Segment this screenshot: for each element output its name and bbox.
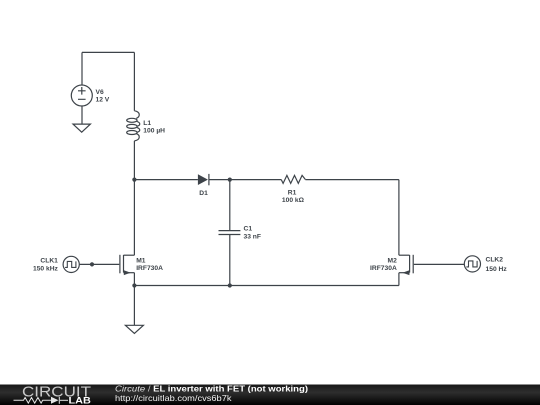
- svg-text:100 µH: 100 µH: [143, 128, 165, 135]
- svg-text:LAB: LAB: [69, 396, 92, 405]
- svg-text:http://circuitlab.com/cvs6b7k: http://circuitlab.com/cvs6b7k: [115, 393, 232, 403]
- svg-text:12 V: 12 V: [96, 97, 110, 104]
- svg-text:150 Hz: 150 Hz: [486, 266, 508, 273]
- svg-text:R1: R1: [288, 190, 297, 197]
- svg-text:100 kΩ: 100 kΩ: [282, 197, 305, 204]
- svg-text:Circute / EL inverter with FET: Circute / EL inverter with FET (not work…: [115, 383, 308, 393]
- svg-text:C1: C1: [244, 225, 253, 232]
- svg-text:CLK1: CLK1: [40, 258, 58, 265]
- svg-text:33 nF: 33 nF: [244, 233, 261, 240]
- svg-text:V6: V6: [96, 89, 104, 96]
- svg-text:IRF730A: IRF730A: [136, 265, 163, 272]
- svg-text:D1: D1: [199, 190, 208, 197]
- svg-text:CLK2: CLK2: [486, 257, 504, 264]
- svg-text:M2: M2: [388, 258, 398, 265]
- svg-text:L1: L1: [143, 120, 151, 127]
- svg-text:IRF730A: IRF730A: [370, 265, 397, 272]
- svg-text:M1: M1: [136, 258, 146, 265]
- svg-text:150 kHz: 150 kHz: [33, 265, 59, 272]
